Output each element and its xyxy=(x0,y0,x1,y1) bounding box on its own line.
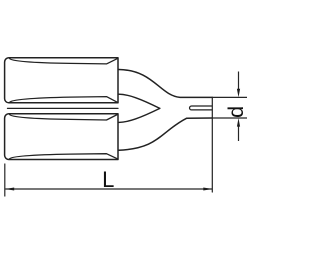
d dimension arrow up xyxy=(237,118,240,126)
L dimension line xyxy=(5,188,212,190)
top tube outline xyxy=(5,58,118,103)
d dimension line lower segment xyxy=(238,126,240,142)
bottom tube outline xyxy=(5,114,118,160)
svg-text:L: L xyxy=(102,167,114,192)
web line between tubes xyxy=(8,107,119,109)
d dimension extension line top xyxy=(213,96,248,98)
top tube lower crimp line xyxy=(10,97,118,103)
d dimension arrow down xyxy=(237,89,240,97)
Y branch outer bottom contour xyxy=(119,118,213,150)
bottom tube lower crimp line xyxy=(10,154,118,159)
d dimension line upper segment xyxy=(238,72,240,91)
d dimension extension line bottom xyxy=(213,117,248,119)
L dimension arrow right xyxy=(203,187,212,190)
bottom tube upper crimp line xyxy=(10,114,118,120)
svg-text:d: d xyxy=(224,106,248,118)
Y branch outer top contour xyxy=(119,70,213,98)
inner divider leaf lower curve xyxy=(119,108,160,122)
neck end wall and right extension line for L xyxy=(211,97,213,192)
neck slot xyxy=(190,106,212,110)
top tube upper crimp line xyxy=(10,58,118,64)
L dimension extension line left xyxy=(4,164,6,197)
inner divider leaf upper curve xyxy=(119,94,160,108)
L dimension arrow left xyxy=(5,187,14,190)
